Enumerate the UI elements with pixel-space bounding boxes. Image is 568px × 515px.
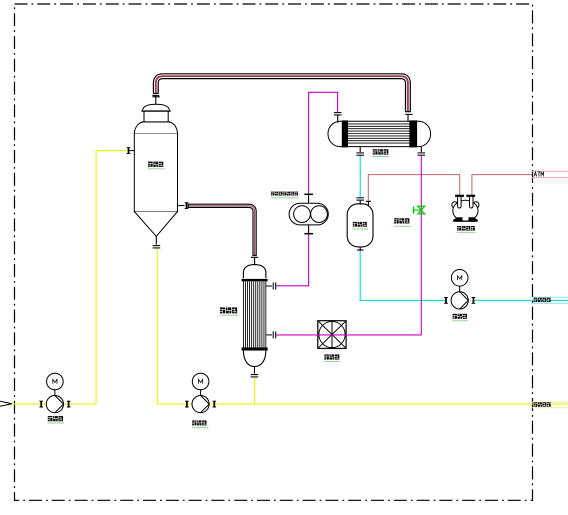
label 风冷机	[324, 354, 329, 359]
label 机械蒸汽压缩机	[271, 192, 274, 196]
separator top nozzle cap	[152, 96, 159, 98]
tank top right nozzle	[366, 200, 371, 202]
label 分离器	[148, 162, 153, 167]
condenser bottom right nozzle	[420, 147, 422, 152]
label 储液罐	[353, 222, 357, 227]
vacuum exhaust continuation label ATM	[532, 170, 568, 172]
separator vapor side nozzle	[178, 205, 185, 207]
evaporator lower side nozzle	[266, 334, 272, 336]
evaporator upper side nozzle	[266, 285, 272, 287]
drain valve body over line	[418, 206, 425, 214]
condenser 冷凝器	[328, 121, 431, 146]
condensate line (cyan) condenser to tank	[359, 155, 361, 197]
evaporator bottom feed line (yellow)	[254, 377, 256, 404]
label 冷凝器	[373, 149, 378, 154]
flange at separator vapor nozzle	[152, 94, 159, 96]
flange at condenser vapor nozzle	[405, 113, 413, 115]
label 排放阀	[394, 218, 399, 223]
vacuum exhaust line (red) vacuum unit to border	[472, 175, 532, 195]
roots compressor 机械蒸汽压缩机	[289, 203, 328, 225]
separator cone bottom	[134, 212, 177, 237]
vapor line (magenta) compressor to condenser inlet	[309, 92, 338, 193]
condensate outlet line (cyan) pump to border	[473, 299, 568, 301]
label 蒸发器	[220, 307, 225, 313]
condenser vapor inlet nozzle left	[337, 115, 339, 123]
label 真空机组	[457, 226, 461, 231]
feed pump 进料泵	[47, 373, 64, 390]
air cooler fan 风冷机	[318, 321, 346, 349]
condensate tank 储液罐	[347, 204, 373, 247]
vapor duct pipe separator side to evaporator top	[188, 206, 254, 256]
drain valve 排放阀	[418, 206, 425, 214]
condenser bottom left nozzle	[359, 147, 361, 153]
transfer pump 输送泵	[451, 270, 468, 287]
flange at evaporator vapor inlet	[251, 256, 258, 258]
feed line (yellow) from inlet through feed pump up to separator	[12, 151, 128, 405]
product outlet continuation label	[532, 401, 568, 403]
tank top left nozzle	[356, 197, 364, 198]
vapor duct pipe separator top to condenser	[156, 76, 408, 111]
circulation pump 循环泵	[192, 373, 209, 390]
evaporator bottom nozzle	[254, 367, 256, 374]
vacuum unit 真空机组	[452, 202, 458, 208]
separator feed nozzle	[130, 150, 135, 152]
tank bottom nozzle	[359, 247, 361, 251]
separator vessel 分离器	[134, 133, 177, 211]
condensate outlet continuation label	[532, 296, 568, 298]
condensate line (cyan) tank to transfer pump	[360, 251, 446, 300]
feed inlet stub	[0, 401, 12, 406]
condensate return line (magenta) evaporator to fan to condenser	[276, 155, 421, 335]
vacuum line (red) tank to vacuum unit	[368, 175, 459, 201]
evaporator 蒸发器	[243, 265, 266, 279]
circulation line (yellow) separator bottom to circulation pump to product header	[157, 248, 568, 404]
vapor line (magenta) evaporator shell outlet to compressor	[276, 234, 308, 286]
